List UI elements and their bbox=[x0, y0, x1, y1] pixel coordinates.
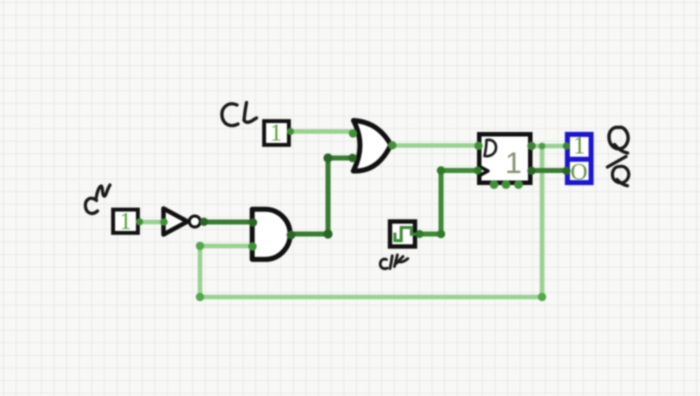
output boxes Q and /Q (blue) bbox=[567, 134, 591, 182]
wire: AND output up to OR input B (dark green) bbox=[290, 158, 353, 234]
junction dot: FF clock input pin bbox=[474, 167, 482, 175]
svg-text:1: 1 bbox=[120, 209, 132, 235]
junction dot: FF D input pin bbox=[474, 142, 482, 150]
junction dot: clock box output pin bbox=[416, 230, 424, 238]
junction dot: output box O pin bbox=[562, 167, 570, 175]
junction dot: clock wire corner bottom bbox=[437, 230, 445, 238]
junction dot: inverter input pin bbox=[160, 218, 168, 226]
junction dot: OR output pin bbox=[388, 141, 396, 149]
wire: FF Q output to output box 1 (light green) bbox=[531, 144, 567, 149]
junction dot: AND input A pin bbox=[249, 218, 257, 226]
NOT gate (inverter) bbox=[164, 209, 188, 235]
FF bottom pin dot 3 bbox=[514, 180, 523, 189]
junction dot: corner left of OR input B bbox=[323, 153, 332, 162]
wire: feedback from Q down and around to AND input B (light green) bbox=[200, 146, 542, 297]
svg-text:1: 1 bbox=[270, 121, 282, 147]
junction dot: FF /Q output pin bbox=[527, 167, 535, 175]
svg-text:1: 1 bbox=[573, 133, 586, 160]
divider between output cells bbox=[566, 157, 594, 162]
label Q (handwritten, top) bbox=[609, 127, 628, 153]
AND gate bbox=[252, 209, 290, 259]
wire: OR output to FF D input (light green) bbox=[391, 143, 479, 148]
FF bottom pin dot 1 bbox=[490, 180, 499, 189]
svg-text:O: O bbox=[571, 159, 588, 185]
FF bottom pin dot 2 bbox=[502, 180, 511, 189]
FF label D (handwritten) bbox=[485, 140, 497, 156]
clock waveform symbol bbox=[395, 228, 417, 241]
junction dot: feedback T-junction on Q wire bbox=[539, 143, 546, 150]
svg-text:1: 1 bbox=[505, 147, 522, 180]
junction dot: feedback corner top left bbox=[196, 242, 204, 250]
label clk (handwritten) bbox=[380, 255, 408, 269]
wire: CN box to inverter (light green, high) bbox=[139, 220, 164, 225]
junction dot: OR input B pin bbox=[348, 154, 356, 162]
FF clock chevron bbox=[478, 166, 488, 177]
wire: inverter bubble to AND input A (dark green, low) bbox=[201, 220, 253, 225]
label CL (handwritten) bbox=[222, 103, 257, 126]
D flip-flop U1 bbox=[479, 134, 530, 183]
label slash between Q and Q-bar bbox=[608, 157, 627, 168]
junction dot: corner below OR bbox=[323, 229, 332, 238]
junction dot: feedback corner bottom left bbox=[196, 293, 204, 301]
junction dot: CL box pin bbox=[287, 128, 294, 135]
junction dot: AND output pin bbox=[287, 231, 296, 240]
junction dot: OR input A pin bbox=[349, 129, 357, 137]
inverter bubble bbox=[189, 216, 200, 227]
label CN (handwritten) bbox=[85, 185, 110, 213]
OR gate bbox=[353, 121, 391, 172]
junction dot: feedback corner bottom right bbox=[538, 293, 546, 301]
label Q-bar (handwritten, bottom) bbox=[612, 166, 628, 185]
junction dot: CN box pin bbox=[136, 218, 143, 225]
junction dot: inverter output bbox=[200, 218, 208, 226]
input box CN (value 1) bbox=[113, 210, 138, 233]
junction dot: output box 1 pin bbox=[563, 142, 570, 149]
wire: FF /Q output to output box O (dark green) bbox=[531, 168, 567, 173]
wire: CL box to OR input A (light green) bbox=[290, 129, 353, 134]
junction dot: clock wire corner top bbox=[437, 166, 445, 174]
clock generator box bbox=[390, 222, 415, 247]
junction dot: AND input B pin bbox=[248, 242, 256, 250]
junction dot: FF Q output pin bbox=[527, 142, 535, 150]
wire: clock box to FF clock input (dark green) bbox=[416, 171, 478, 235]
input box CL (value 1) bbox=[264, 121, 289, 145]
